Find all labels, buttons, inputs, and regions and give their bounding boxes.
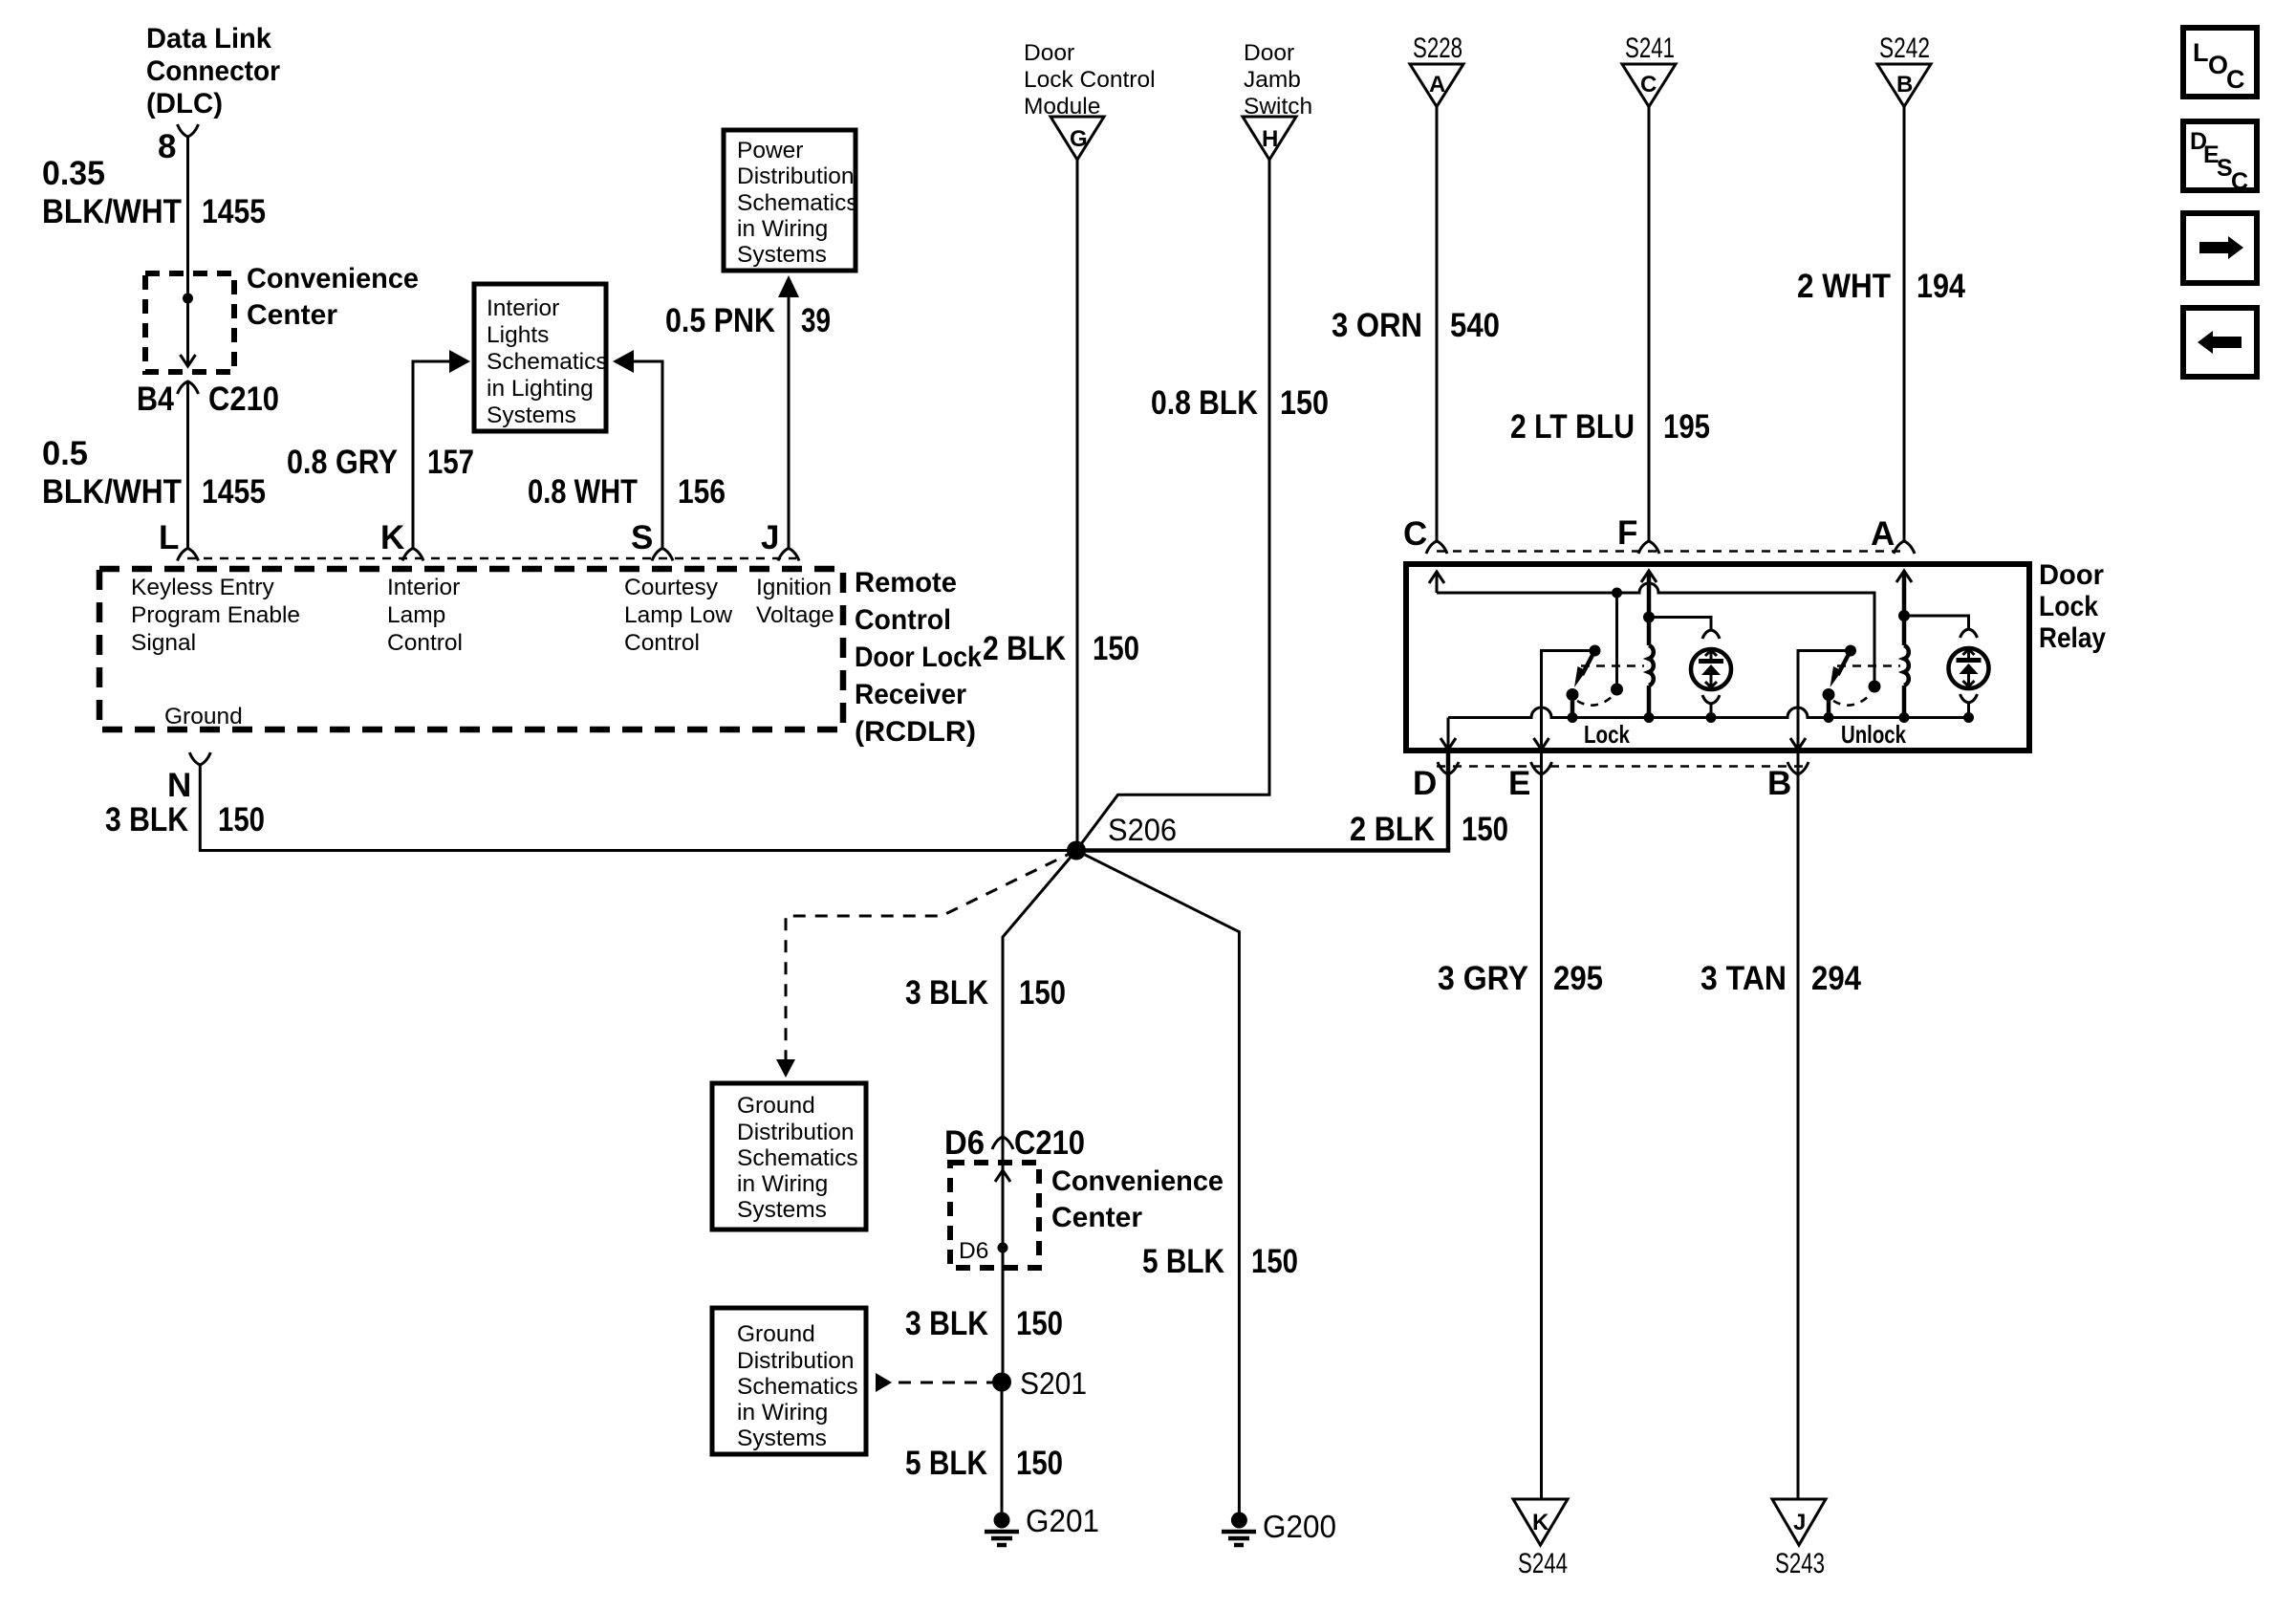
off-page triangle H (Door Jamb Switch) — [1243, 117, 1296, 160]
svg-text:S228: S228 — [1413, 33, 1462, 64]
connector C210 terminal D6 fork — [992, 1137, 1013, 1149]
svg-text:Power: Power — [737, 138, 803, 163]
RCDLR internal label Interior Lamp Control — [387, 575, 463, 656]
splice S206 junction dot — [1067, 841, 1086, 860]
svg-text:0.8 WHT: 0.8 WHT — [528, 473, 638, 511]
svg-text:150: 150 — [1280, 384, 1329, 422]
svg-text:O: O — [2208, 51, 2228, 79]
svg-text:Distribution: Distribution — [737, 1348, 855, 1374]
svg-text:Ground: Ground — [737, 1321, 815, 1347]
RCDLR internal label Ignition Voltage — [756, 575, 834, 628]
junction lock coil to bus — [1644, 712, 1655, 723]
svg-text:157: 157 — [427, 444, 474, 481]
component Door Lock Relay box — [1406, 564, 2029, 751]
svg-text:B: B — [1896, 72, 1913, 98]
lock switch blade with arrowhead — [1574, 651, 1595, 688]
wire 2 LT BLU 195 from S241 to relay terminal F — [1648, 107, 1651, 542]
lock suppression diode (circle) — [1691, 649, 1731, 689]
svg-text:S242: S242 — [1879, 33, 1930, 64]
svg-text:8: 8 — [158, 128, 176, 165]
svg-text:Interior: Interior — [487, 295, 559, 321]
svg-text:BLK/WHT: BLK/WHT — [42, 473, 182, 511]
wire 3 ORN 540 from S228 to relay terminal C — [1436, 107, 1439, 542]
svg-text:150: 150 — [1016, 1445, 1063, 1482]
lock NO contact — [1611, 684, 1623, 696]
svg-text:Signal: Signal — [131, 630, 196, 656]
wire D drop from bottom bus with down arrow — [1440, 718, 1456, 751]
svg-text:Center: Center — [1051, 1202, 1142, 1233]
svg-text:39: 39 — [801, 302, 831, 339]
component Convenience Center (upper dashed box) — [145, 273, 234, 372]
svg-text:S241: S241 — [1625, 33, 1675, 64]
svg-text:5 BLK: 5 BLK — [1142, 1243, 1224, 1280]
junction unlock coil to bus — [1899, 712, 1910, 723]
junction unlock diode to bus — [1963, 712, 1974, 723]
connector row dashed line on relay top — [1437, 550, 1904, 553]
svg-text:S206: S206 — [1108, 813, 1177, 847]
wire 0.5 BLK/WHT 1455 from C210 to RCDLR terminal L — [186, 381, 189, 549]
button LOC — [2183, 28, 2257, 97]
svg-text:C: C — [1403, 515, 1427, 553]
unlock switch: B feed wire up through bus to pivot — [1790, 651, 1851, 751]
junction lock diode to bus — [1706, 712, 1717, 723]
arrowhead into Power Distribution box — [778, 275, 799, 297]
svg-text:C: C — [2226, 65, 2245, 94]
svg-text:Distribution: Distribution — [737, 163, 855, 189]
off-page triangle J to S243 — [1772, 1499, 1826, 1545]
button arrow left — [2183, 308, 2257, 377]
svg-text:Courtesy: Courtesy — [624, 575, 719, 600]
svg-text:F: F — [1617, 514, 1637, 552]
svg-text:150: 150 — [1251, 1243, 1298, 1280]
svg-text:3 BLK: 3 BLK — [105, 801, 188, 838]
svg-text:Convenience: Convenience — [1051, 1165, 1224, 1197]
svg-text:B4: B4 — [137, 381, 174, 418]
wire through lower Convenience Center — [1002, 1137, 1005, 1382]
connector row dashed line on RCDLR top — [187, 557, 796, 560]
svg-text:G200: G200 — [1263, 1509, 1336, 1544]
relay internal: C output stub with up arrow — [1429, 572, 1444, 593]
arrow up inside lower Convenience Center — [995, 1170, 1010, 1182]
terminal N connector fork — [189, 752, 210, 765]
dashed wire from Ground Distribution reference to S201 — [899, 1382, 992, 1384]
svg-text:C210: C210 — [208, 381, 279, 418]
svg-text:H: H — [1262, 126, 1278, 152]
svg-text:C210: C210 — [1014, 1124, 1085, 1162]
connector DLC (Data Link Connector) title — [146, 23, 280, 120]
svg-text:Lock: Lock — [2039, 591, 2098, 622]
unlock suppression diode (circle) — [1949, 648, 1989, 688]
svg-text:3 ORN: 3 ORN — [1332, 307, 1422, 344]
junction F wire to lock diode branch — [1643, 612, 1655, 623]
svg-text:2 WHT: 2 WHT — [1797, 268, 1891, 305]
svg-text:2 BLK: 2 BLK — [1350, 811, 1435, 848]
svg-text:Data Link: Data Link — [146, 23, 271, 54]
svg-text:1455: 1455 — [202, 193, 266, 230]
off-page triangle G (Door Lock Control Module) — [1051, 117, 1104, 160]
svg-text:D6: D6 — [944, 1124, 985, 1162]
svg-text:294: 294 — [1811, 960, 1861, 997]
svg-text:C: C — [2231, 168, 2248, 195]
svg-text:Lights: Lights — [487, 322, 549, 348]
svg-text:5 BLK: 5 BLK — [905, 1445, 987, 1482]
relay internal wire: top bus from C to unlock contact (hops over F wire) — [1437, 583, 1874, 681]
svg-text:295: 295 — [1553, 960, 1603, 997]
value label 0.5 BLK/WHT — [42, 435, 182, 511]
wire unlock diode branch — [1904, 616, 1969, 629]
value label 0.35 BLK/WHT — [42, 155, 182, 230]
svg-text:0.35: 0.35 — [42, 155, 105, 192]
svg-text:D: D — [1413, 765, 1437, 802]
svg-text:A: A — [1429, 72, 1445, 98]
svg-text:0.8 BLK: 0.8 BLK — [1151, 384, 1258, 422]
svg-text:Control: Control — [624, 630, 700, 656]
terminal L connector fork — [178, 549, 199, 561]
svg-text:E: E — [1508, 765, 1530, 802]
svg-text:150: 150 — [1093, 630, 1139, 667]
junction A wire to unlock diode branch — [1898, 610, 1910, 621]
svg-text:B: B — [1767, 765, 1791, 802]
svg-text:150: 150 — [1462, 811, 1508, 848]
svg-text:G201: G201 — [1026, 1503, 1099, 1538]
svg-text:Systems: Systems — [737, 242, 827, 268]
arrow down inside Convenience Center — [181, 355, 196, 366]
svg-text:Ground: Ground — [737, 1093, 815, 1119]
wire 3 TAN 294 from B to S243 — [1797, 753, 1800, 1499]
svg-text:S244: S244 — [1518, 1548, 1568, 1579]
component title Remote Control Door Lock Receiver (RCDLR) — [855, 567, 982, 748]
wire 0.8 GRY 157 from RCDLR terminal K to Interior Lights box — [413, 361, 453, 549]
svg-text:3 TAN: 3 TAN — [1700, 960, 1787, 997]
svg-text:0.8 GRY: 0.8 GRY — [287, 444, 398, 481]
svg-text:Door: Door — [1244, 40, 1294, 66]
wire 5 BLK 150 from S201 to G201 — [1001, 1382, 1004, 1513]
svg-text:L: L — [159, 519, 179, 556]
relay terminal D fork — [1438, 762, 1459, 774]
RCDLR internal label Courtesy Lamp Low Control — [624, 575, 732, 656]
connector fork below lock diode — [1702, 695, 1720, 718]
svg-text:Lamp: Lamp — [387, 602, 445, 628]
component Convenience Center (lower dashed box) — [950, 1163, 1039, 1268]
relay coil wire F: arrow up at top, coil, to bottom bus — [1641, 571, 1657, 718]
svg-text:Systems: Systems — [737, 1426, 827, 1451]
lock NC contact and stub to bus — [1567, 688, 1579, 723]
button arrow right — [2183, 213, 2257, 283]
wire 0.5 PNK 39 from RCDLR terminal J up to Power Distribution box — [788, 294, 791, 549]
relay terminal F fork — [1638, 541, 1659, 554]
unlock NC contact and stub to bus — [1823, 688, 1835, 723]
relay terminal B fork — [1787, 762, 1809, 774]
wire through Convenience Center — [186, 276, 189, 364]
svg-text:Interior: Interior — [387, 575, 460, 600]
svg-text:3 BLK: 3 BLK — [905, 1305, 988, 1342]
arrowhead into Interior Lights box (right) — [613, 350, 634, 373]
svg-text:in Wiring: in Wiring — [737, 1400, 828, 1426]
label Convenience Center — [247, 263, 419, 331]
wire 0.35 BLK/WHT 1455 from DLC to Convenience Center — [186, 137, 189, 276]
svg-text:Ground: Ground — [164, 704, 243, 729]
arrowhead right from lower Ground Distribution box — [876, 1373, 892, 1392]
off-page triangle A from S228 — [1410, 64, 1463, 107]
svg-text:Distribution: Distribution — [737, 1120, 855, 1145]
svg-text:3 BLK: 3 BLK — [905, 974, 988, 1012]
arrowhead down to Ground Distribution reference — [776, 1059, 795, 1078]
splice S201 junction dot — [992, 1373, 1011, 1392]
svg-text:Program Enable: Program Enable — [131, 602, 300, 628]
component Door Lock Control Module label — [1024, 40, 1156, 120]
svg-text:J: J — [1793, 1510, 1806, 1535]
terminal J connector fork — [778, 549, 799, 561]
svg-text:195: 195 — [1663, 408, 1710, 446]
svg-text:Relay: Relay — [2039, 622, 2106, 654]
wire 0.8 WHT 156 from RCDLR terminal S to Interior Lights box — [630, 361, 662, 549]
svg-text:Schematics: Schematics — [737, 1145, 858, 1171]
svg-text:156: 156 — [678, 473, 726, 511]
svg-text:Schematics: Schematics — [737, 190, 858, 216]
svg-text:D6: D6 — [959, 1238, 988, 1264]
svg-text:Lock: Lock — [1584, 720, 1630, 749]
label Convenience Center (lower) — [1051, 1165, 1224, 1233]
component Ground Distribution Schematics box (lower) — [712, 1308, 866, 1454]
svg-text:Ignition: Ignition — [756, 575, 832, 600]
svg-text:(DLC): (DLC) — [146, 88, 223, 120]
svg-text:G: G — [1070, 126, 1088, 152]
svg-text:N: N — [167, 767, 191, 804]
svg-text:Systems: Systems — [487, 403, 576, 428]
wire 2 BLK 150 from G down to S206 — [1076, 160, 1079, 851]
lock coil mechanical dashed link — [1581, 664, 1644, 667]
svg-text:2 LT BLU: 2 LT BLU — [1510, 408, 1635, 446]
svg-text:194: 194 — [1917, 268, 1965, 305]
wire 3 BLK 150 from N to S206 — [200, 765, 1076, 851]
component Door Jamb Switch label — [1244, 40, 1312, 120]
wire 5 BLK 150 from S206 to G200 — [1076, 851, 1239, 1513]
connector fork below unlock diode — [1960, 694, 1978, 718]
svg-text:S243: S243 — [1775, 1548, 1825, 1579]
svg-text:Control: Control — [855, 604, 951, 636]
wire 2 BLK 150 from D to S206 — [1076, 753, 1448, 851]
connector fork above unlock diode — [1960, 629, 1978, 638]
off-page triangle C from S241 — [1622, 64, 1676, 107]
svg-text:Convenience: Convenience — [247, 263, 419, 294]
svg-text:2 BLK: 2 BLK — [983, 630, 1066, 667]
relay terminal C fork — [1426, 541, 1447, 554]
ground G200 symbol — [1222, 1513, 1256, 1546]
svg-text:J: J — [761, 519, 779, 556]
unlock coil mechanical dashed link — [1837, 664, 1900, 667]
unlock switch blade with arrowhead — [1830, 651, 1852, 688]
svg-text:L: L — [2193, 38, 2209, 67]
svg-text:BLK/WHT: BLK/WHT — [42, 193, 182, 230]
svg-text:540: 540 — [1450, 307, 1500, 344]
junction on top bus (lock side) — [1612, 588, 1622, 599]
relay coil wire A: arrow up at top, coil, to bottom bus — [1896, 571, 1912, 718]
svg-text:S201: S201 — [1020, 1366, 1087, 1401]
svg-text:0.5 PNK: 0.5 PNK — [665, 302, 775, 339]
svg-text:Receiver: Receiver — [855, 679, 966, 710]
component Ground Distribution Schematics box (upper) — [712, 1083, 866, 1230]
unlock switch pivot — [1845, 645, 1856, 657]
terminal K connector fork — [402, 549, 423, 561]
svg-text:Schematics: Schematics — [487, 349, 608, 375]
svg-text:Door: Door — [2039, 559, 2104, 591]
svg-text:Unlock: Unlock — [1841, 720, 1906, 749]
component title Door Lock Relay — [2039, 559, 2106, 654]
svg-text:Connector: Connector — [146, 55, 280, 87]
svg-text:Center: Center — [247, 299, 337, 331]
svg-text:C: C — [1640, 72, 1657, 98]
svg-text:Remote: Remote — [855, 567, 957, 599]
svg-text:Lamp Low: Lamp Low — [624, 602, 732, 628]
off-page triangle K to S244 — [1513, 1499, 1568, 1545]
svg-text:150: 150 — [1016, 1305, 1063, 1342]
component RCDLR dashed outline — [99, 569, 843, 729]
svg-text:Voltage: Voltage — [756, 602, 834, 628]
junction in Convenience Center — [183, 294, 193, 304]
svg-text:Systems: Systems — [737, 1197, 827, 1223]
svg-text:Door Lock: Door Lock — [855, 642, 982, 673]
component Interior Lights Schematics box — [474, 284, 608, 431]
unlock switch travel dashed arc — [1833, 697, 1868, 706]
button DESC — [2183, 121, 2257, 195]
svg-text:150: 150 — [1019, 974, 1066, 1012]
svg-text:A: A — [1871, 515, 1895, 553]
wire lock diode branch — [1649, 618, 1711, 631]
relay terminal A fork — [1894, 541, 1915, 554]
svg-text:1455: 1455 — [202, 473, 266, 511]
off-page triangle B from S242 — [1877, 64, 1931, 107]
relay terminal E fork — [1531, 762, 1552, 774]
terminal S connector fork — [652, 549, 673, 561]
component Power Distribution Schematics box — [724, 130, 858, 271]
wire 3 GRY 295 from E to S244 — [1540, 753, 1543, 1499]
connector fork above lock diode — [1702, 630, 1720, 639]
svg-text:S: S — [631, 519, 653, 556]
unlock NO contact — [1869, 681, 1881, 693]
relay bottom bus wire (hops over E and B wires) — [1448, 708, 1969, 718]
relay internal wire: drop from top bus to lock NO contact — [1615, 593, 1618, 685]
lock switch travel dashed arc — [1577, 697, 1612, 706]
svg-text:3 GRY: 3 GRY — [1438, 960, 1528, 997]
lock switch: E feed wire up through bus to pivot — [1534, 651, 1595, 751]
svg-text:150: 150 — [218, 801, 265, 838]
svg-text:in Wiring: in Wiring — [737, 216, 828, 242]
svg-text:Schematics: Schematics — [737, 1374, 858, 1400]
svg-text:K: K — [380, 519, 404, 556]
svg-text:in Wiring: in Wiring — [737, 1171, 828, 1197]
dashed wire from S206 to Ground Distribution reference — [786, 851, 1076, 1064]
ground G201 symbol — [985, 1513, 1019, 1546]
svg-text:Control: Control — [387, 630, 463, 656]
svg-text:Jamb: Jamb — [1244, 67, 1301, 93]
svg-text:Keyless Entry: Keyless Entry — [131, 575, 275, 600]
connector terminal 8 of DLC — [178, 124, 199, 137]
svg-text:Door: Door — [1024, 40, 1074, 66]
svg-text:0.5: 0.5 — [42, 435, 88, 472]
svg-text:in Lighting: in Lighting — [487, 376, 594, 402]
junction inside lower Convenience Center — [998, 1243, 1008, 1253]
svg-text:(RCDLR): (RCDLR) — [855, 716, 976, 748]
connector row dashed line below relay — [1437, 765, 1809, 768]
svg-text:K: K — [1532, 1510, 1549, 1535]
wire 3 BLK 150 from S206 to C210 D6 — [1003, 851, 1076, 1138]
arrowhead into Interior Lights box (left) — [449, 350, 470, 373]
lock switch pivot — [1590, 645, 1601, 657]
RCDLR internal label Keyless Entry Program Enable Signal — [131, 575, 300, 656]
wire 2 WHT 194 from S242 to relay terminal A — [1903, 107, 1906, 542]
svg-text:Lock Control: Lock Control — [1024, 67, 1156, 93]
wire 0.8 BLK 150 from H down to S206 — [1076, 160, 1269, 851]
connector C210 terminal B4 — [178, 381, 199, 394]
